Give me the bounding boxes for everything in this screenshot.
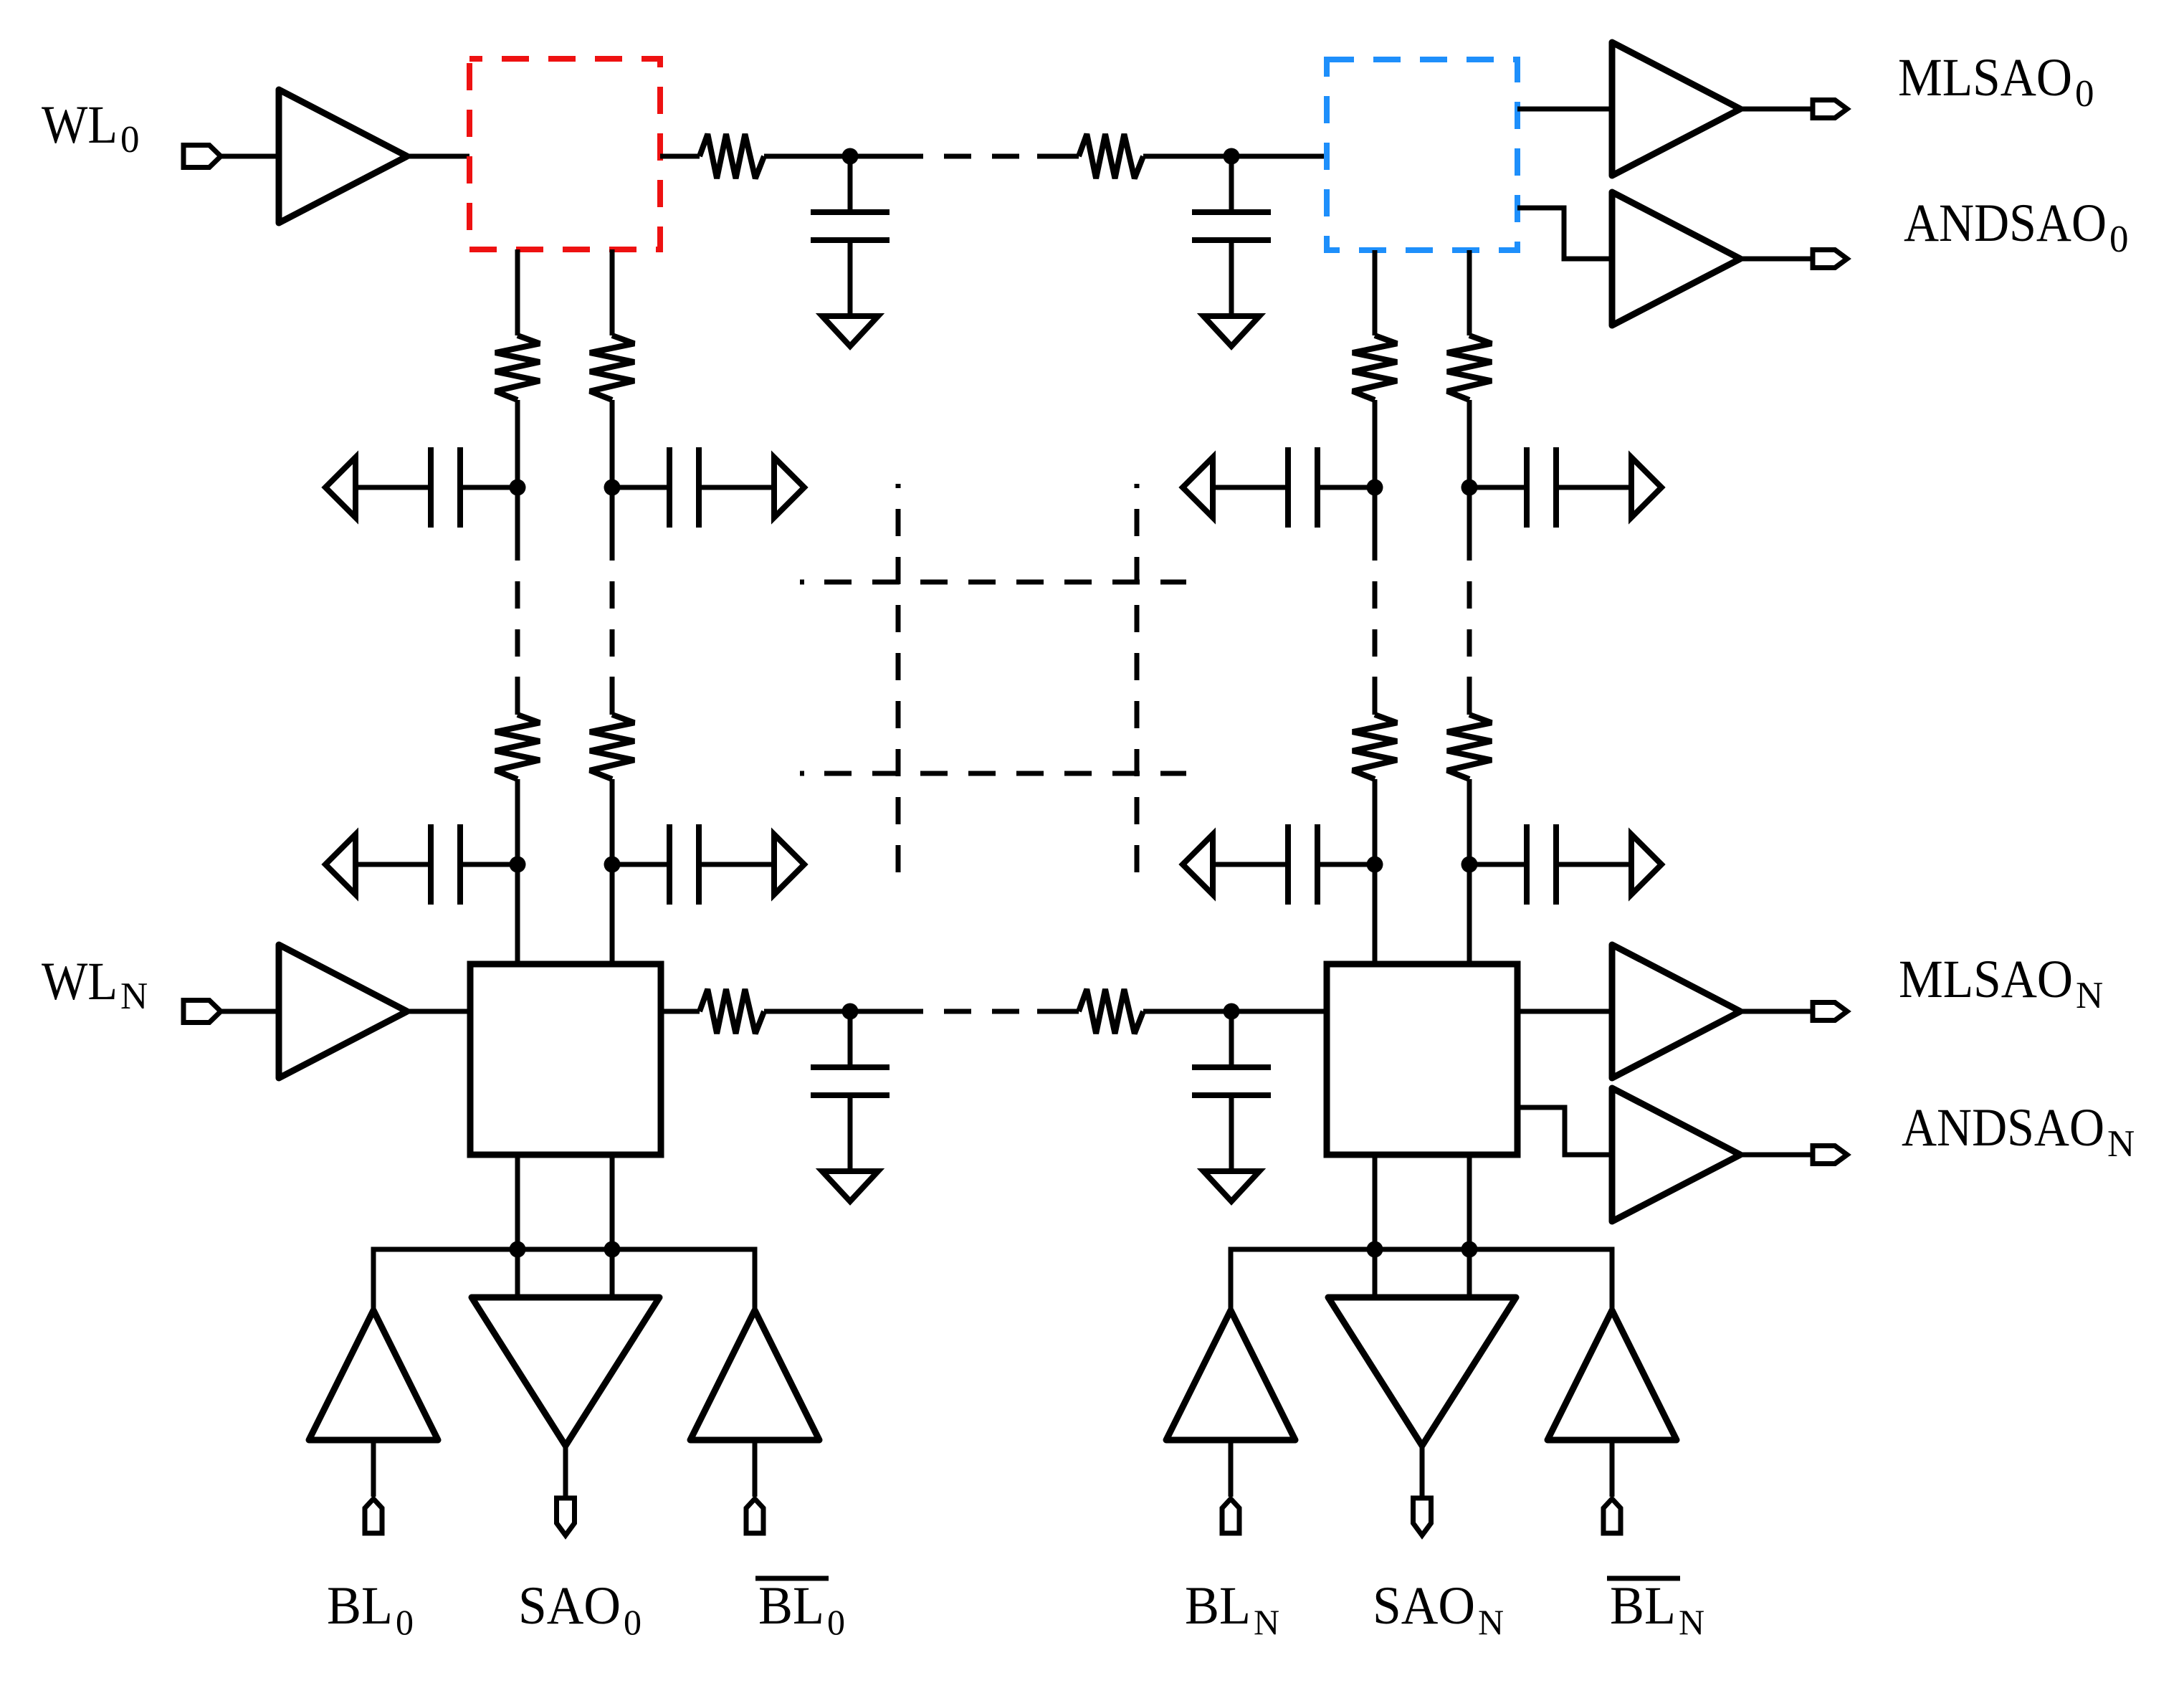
resistor R4 (ML segment): [1079, 989, 1143, 1034]
buffer U1 (WL0 driver): [279, 90, 407, 223]
wire: [1517, 1009, 1612, 1014]
wire: [764, 154, 923, 159]
capacitor C4 (ML parasitic): [1229, 1011, 1234, 1066]
node: [510, 1241, 526, 1258]
port MLSAO0: [1813, 100, 1847, 118]
svg-text:WL: WL: [42, 95, 118, 155]
sense amp SAON: [1328, 1297, 1516, 1446]
svg-text:MLSAO: MLSAO: [1898, 48, 2072, 108]
wire: [660, 154, 700, 159]
node: [510, 480, 526, 496]
node: [1461, 857, 1478, 873]
coupling capacitor (left neighbour): [1183, 834, 1213, 895]
wire: [1373, 1155, 1378, 1249]
wire: [563, 1442, 568, 1496]
resistor R3 (ML segment): [700, 989, 764, 1034]
svg-text:N: N: [2107, 1123, 2135, 1165]
resistor (BL segment): [495, 715, 540, 779]
wire: [1037, 154, 1079, 159]
node: [604, 1241, 621, 1258]
node: [510, 857, 526, 873]
wire: [515, 400, 520, 561]
capacitor C2 (ML parasitic): [1229, 156, 1234, 211]
svg-text:0: 0: [396, 1602, 414, 1642]
wire: [1467, 250, 1472, 335]
svg-text:0: 0: [624, 1602, 642, 1642]
resistor R1 (ML segment): [700, 134, 764, 178]
sense amp SAO0: [472, 1297, 659, 1446]
svg-text:0: 0: [2075, 73, 2094, 115]
node: [1461, 480, 1478, 496]
resistor R2 (ML segment): [1079, 134, 1143, 178]
wire: [221, 154, 279, 159]
wire: [661, 1009, 700, 1014]
svg-text:MLSAO: MLSAO: [1899, 950, 2073, 1009]
wire: [1517, 208, 1612, 259]
wire (dashed column): [1373, 581, 1378, 657]
wire: [1467, 1155, 1472, 1249]
wire: [1037, 1009, 1079, 1014]
svg-text:ANDSAO: ANDSAO: [1904, 194, 2107, 253]
port SAO0: [557, 1498, 575, 1535]
wire: [1143, 154, 1327, 159]
port ANDSAO0: [1813, 250, 1847, 268]
wire: [515, 249, 520, 335]
svg-text:WL: WL: [42, 952, 118, 1011]
wire: [1467, 1249, 1472, 1297]
node n2: [1224, 148, 1240, 165]
cell CN0: [470, 964, 661, 1155]
wire: [1373, 250, 1378, 335]
svg-text:N: N: [2076, 975, 2103, 1016]
wire: [1143, 1009, 1327, 1014]
continuation mark (vertical): [896, 484, 901, 488]
capacitor C1 (ML parasitic): [848, 156, 853, 211]
wire (dashed column): [515, 581, 520, 657]
port SAON: [1413, 1498, 1431, 1535]
wire: [610, 249, 615, 335]
node: [1367, 1241, 1383, 1258]
resistor (BL segment): [590, 715, 634, 779]
wire (dashed continuation): [944, 1009, 1019, 1014]
ground: [1203, 316, 1259, 346]
net label BLBN (with overline): [1607, 1576, 1680, 1581]
buffer BLBN driver: [1548, 1310, 1677, 1440]
wire: [1420, 1442, 1425, 1496]
buffer BL0 driver: [309, 1310, 438, 1440]
wire (dashed continuation): [944, 154, 1019, 159]
svg-text:BL: BL: [1610, 1576, 1676, 1636]
node: [1367, 480, 1383, 496]
wire: [1517, 1107, 1612, 1155]
wire: [1373, 1249, 1378, 1297]
wire: [1231, 1249, 1612, 1313]
wire: [610, 1249, 615, 1297]
node n1: [842, 148, 859, 165]
wire: [407, 154, 469, 159]
wire: [1740, 1009, 1813, 1014]
buffer ANDSAON: [1612, 1088, 1740, 1221]
buffer BLB0 driver: [690, 1310, 819, 1440]
wire: [371, 1440, 376, 1497]
wire: [373, 1249, 755, 1313]
buffer MLSAO0: [1612, 42, 1740, 176]
buffer MLSAON: [1612, 945, 1740, 1078]
coupling capacitor (right neighbour): [612, 862, 669, 867]
svg-text:BL: BL: [327, 1576, 393, 1636]
svg-text:0: 0: [120, 119, 140, 161]
resistor (BL segment): [495, 335, 540, 400]
wire: [610, 400, 615, 561]
port BL0: [365, 1499, 382, 1533]
node: [604, 857, 621, 873]
coupling capacitor (left neighbour): [325, 834, 356, 895]
svg-text:N: N: [120, 976, 148, 1017]
svg-text:SAO: SAO: [518, 1576, 621, 1636]
wire (dashed column): [1467, 581, 1472, 657]
ground: [822, 316, 878, 346]
svg-text:SAO: SAO: [1373, 1576, 1475, 1636]
wire: [1740, 107, 1813, 112]
wire: [1517, 107, 1612, 112]
wire: [1467, 779, 1472, 964]
coupling capacitor (right neighbour): [1469, 485, 1527, 490]
wire: [753, 1440, 758, 1497]
node: [604, 480, 621, 496]
port WLN: [183, 1001, 221, 1023]
capacitor C3 (ML parasitic): [848, 1011, 853, 1066]
wire: [1373, 400, 1378, 561]
continuation mark (horizontal): [800, 580, 804, 585]
wire: [610, 1155, 615, 1249]
ground: [1203, 1171, 1259, 1201]
port MLSAON: [1813, 1003, 1847, 1021]
wire: [1740, 257, 1813, 262]
node n3: [842, 1003, 859, 1020]
wire: [610, 779, 615, 964]
svg-text:N: N: [1478, 1602, 1504, 1642]
resistor (BL segment): [590, 335, 634, 400]
svg-text:ANDSAO: ANDSAO: [1902, 1098, 2104, 1158]
wire: [764, 1009, 923, 1014]
coupling capacitor (right neighbour): [612, 485, 669, 490]
ground: [822, 1171, 878, 1201]
node: [1461, 1241, 1478, 1258]
port BLBN: [1603, 1499, 1621, 1533]
coupling capacitor (left neighbour): [1183, 457, 1213, 518]
svg-text:N: N: [1679, 1602, 1704, 1642]
resistor (BL segment): [1447, 335, 1492, 400]
wire: [1467, 400, 1472, 561]
resistor (BL segment): [1353, 335, 1397, 400]
node n4: [1224, 1003, 1240, 1020]
wire: [515, 779, 520, 964]
coupling capacitor (right neighbour): [1469, 862, 1527, 867]
wire: [610, 677, 615, 715]
buffer U2 (WLN driver): [279, 945, 407, 1078]
cell C00 (selected, red dashed): [469, 59, 660, 249]
coupling capacitor (left neighbour): [325, 457, 356, 518]
wire: [1373, 677, 1378, 715]
wire: [1740, 1153, 1813, 1158]
cell C0N (blue dashed): [1327, 59, 1517, 250]
wire: [515, 1249, 520, 1297]
net label BLB0 (with overline): [755, 1576, 829, 1581]
port WL0: [183, 146, 221, 168]
wire: [1467, 677, 1472, 715]
wire: [407, 1009, 470, 1014]
svg-text:BL: BL: [758, 1576, 824, 1636]
wire: [515, 1155, 520, 1249]
wire: [515, 677, 520, 715]
buffer ANDSAO0: [1612, 192, 1740, 325]
wire: [1373, 779, 1378, 964]
wire (dashed column): [610, 581, 615, 657]
resistor (BL segment): [1447, 715, 1492, 779]
svg-text:0: 0: [827, 1602, 845, 1642]
port BLN: [1222, 1499, 1239, 1533]
wire: [1229, 1440, 1234, 1497]
continuation mark (vertical): [1135, 484, 1140, 488]
svg-text:0: 0: [2109, 219, 2129, 260]
buffer BLN driver: [1166, 1310, 1295, 1440]
wire: [221, 1009, 279, 1014]
cell CNN: [1327, 964, 1517, 1155]
continuation mark (horizontal): [800, 771, 804, 776]
resistor (BL segment): [1353, 715, 1397, 779]
port BLB0: [746, 1499, 763, 1533]
svg-text:N: N: [1254, 1602, 1279, 1642]
svg-text:BL: BL: [1185, 1576, 1251, 1636]
wire: [1610, 1440, 1615, 1497]
port ANDSAON: [1813, 1146, 1847, 1164]
node: [1367, 857, 1383, 873]
